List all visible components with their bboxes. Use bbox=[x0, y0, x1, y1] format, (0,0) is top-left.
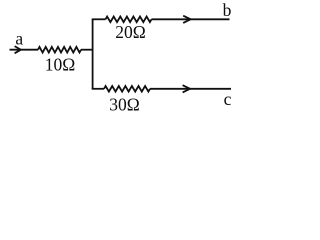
resistor R1 10ohm zigzag bbox=[38, 47, 81, 53]
current arrow into node a bbox=[15, 46, 21, 53]
top wire from junction to resistor R2 bbox=[92, 18, 106, 20]
svg-text:10Ω: 10Ω bbox=[45, 54, 76, 74]
vertical junction wire bbox=[92, 19, 94, 89]
svg-text:b: b bbox=[223, 0, 232, 20]
wire from R1 to junction node bbox=[81, 49, 93, 51]
svg-text:a: a bbox=[15, 28, 23, 48]
current arrow on top branch bbox=[183, 16, 190, 23]
current arrow on bottom branch bbox=[183, 85, 190, 92]
svg-text:20Ω: 20Ω bbox=[115, 22, 146, 42]
svg-text:c: c bbox=[224, 89, 232, 109]
bottom wire from junction to resistor R3 bbox=[92, 88, 104, 90]
wire from node a to resistor R1 bbox=[10, 49, 39, 51]
svg-text:30Ω: 30Ω bbox=[109, 94, 140, 114]
resistor R2 20ohm zigzag bbox=[106, 17, 152, 23]
resistor R3 30ohm zigzag bbox=[104, 86, 150, 92]
top wire from R2 to node b bbox=[152, 18, 230, 20]
bottom wire from R3 to node c bbox=[150, 88, 231, 90]
